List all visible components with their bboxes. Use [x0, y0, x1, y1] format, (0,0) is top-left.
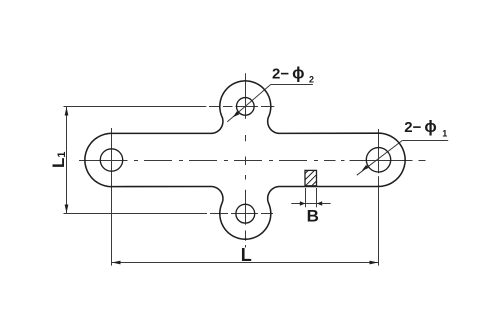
svg-text:B: B [307, 206, 319, 225]
svg-text:L: L [241, 245, 252, 265]
